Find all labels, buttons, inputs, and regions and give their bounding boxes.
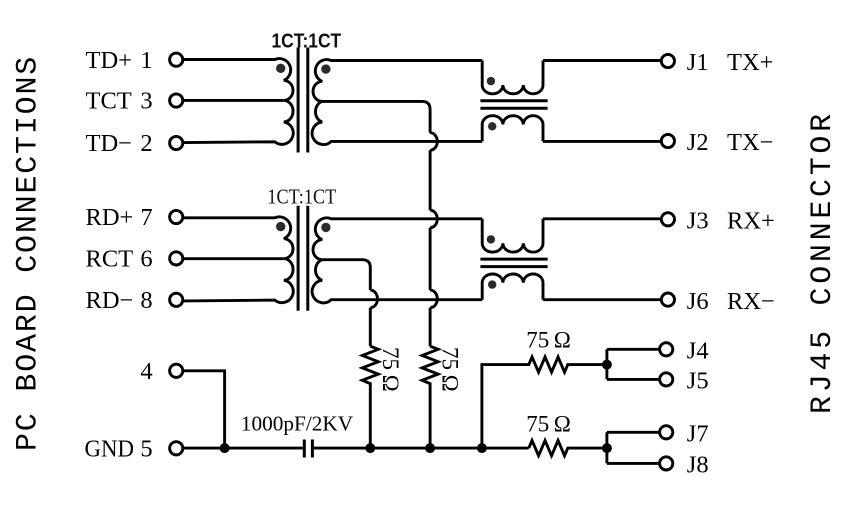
svg-text:TX−: TX−: [727, 129, 773, 156]
svg-text:1: 1: [140, 47, 152, 74]
svg-text:J4: J4: [687, 338, 709, 365]
svg-text:PC BOARD CONNECTIONS: PC BOARD CONNECTIONS: [12, 55, 46, 451]
svg-text:J7: J7: [687, 421, 709, 448]
svg-text:1CT:1CT: 1CT:1CT: [272, 30, 342, 53]
svg-text:TD−: TD−: [86, 130, 132, 157]
svg-text:TX+: TX+: [727, 49, 773, 76]
svg-text:J1: J1: [687, 49, 709, 76]
svg-text:75 Ω: 75 Ω: [438, 347, 463, 392]
svg-text:5: 5: [140, 435, 152, 462]
svg-text:TCT: TCT: [86, 88, 132, 115]
svg-text:RD+: RD+: [86, 204, 134, 231]
svg-text:75 Ω: 75 Ω: [526, 327, 571, 352]
svg-text:8: 8: [140, 287, 152, 314]
svg-text:1CT:1CT: 1CT:1CT: [267, 184, 336, 208]
svg-text:75 Ω: 75 Ω: [378, 347, 403, 392]
svg-text:75 Ω: 75 Ω: [526, 411, 571, 436]
svg-text:2: 2: [140, 130, 152, 157]
svg-text:J6: J6: [687, 288, 709, 315]
svg-text:J8: J8: [687, 452, 709, 479]
svg-text:RX−: RX−: [727, 288, 775, 315]
svg-text:J2: J2: [687, 129, 709, 156]
svg-text:RCT: RCT: [86, 245, 134, 272]
svg-text:7: 7: [140, 204, 152, 231]
svg-text:3: 3: [140, 88, 152, 115]
svg-text:J5: J5: [687, 368, 709, 395]
svg-text:RJ45 CONNECTOR: RJ45 CONNECTOR: [806, 110, 840, 414]
svg-text:TD+: TD+: [86, 47, 132, 74]
svg-text:RD−: RD−: [86, 287, 134, 314]
svg-text:4: 4: [140, 358, 152, 385]
svg-text:GND: GND: [85, 436, 135, 463]
svg-text:6: 6: [140, 245, 152, 272]
svg-text:J3: J3: [687, 208, 709, 235]
svg-text:1000pF/2KV: 1000pF/2KV: [241, 413, 353, 436]
svg-text:RX+: RX+: [727, 208, 775, 235]
